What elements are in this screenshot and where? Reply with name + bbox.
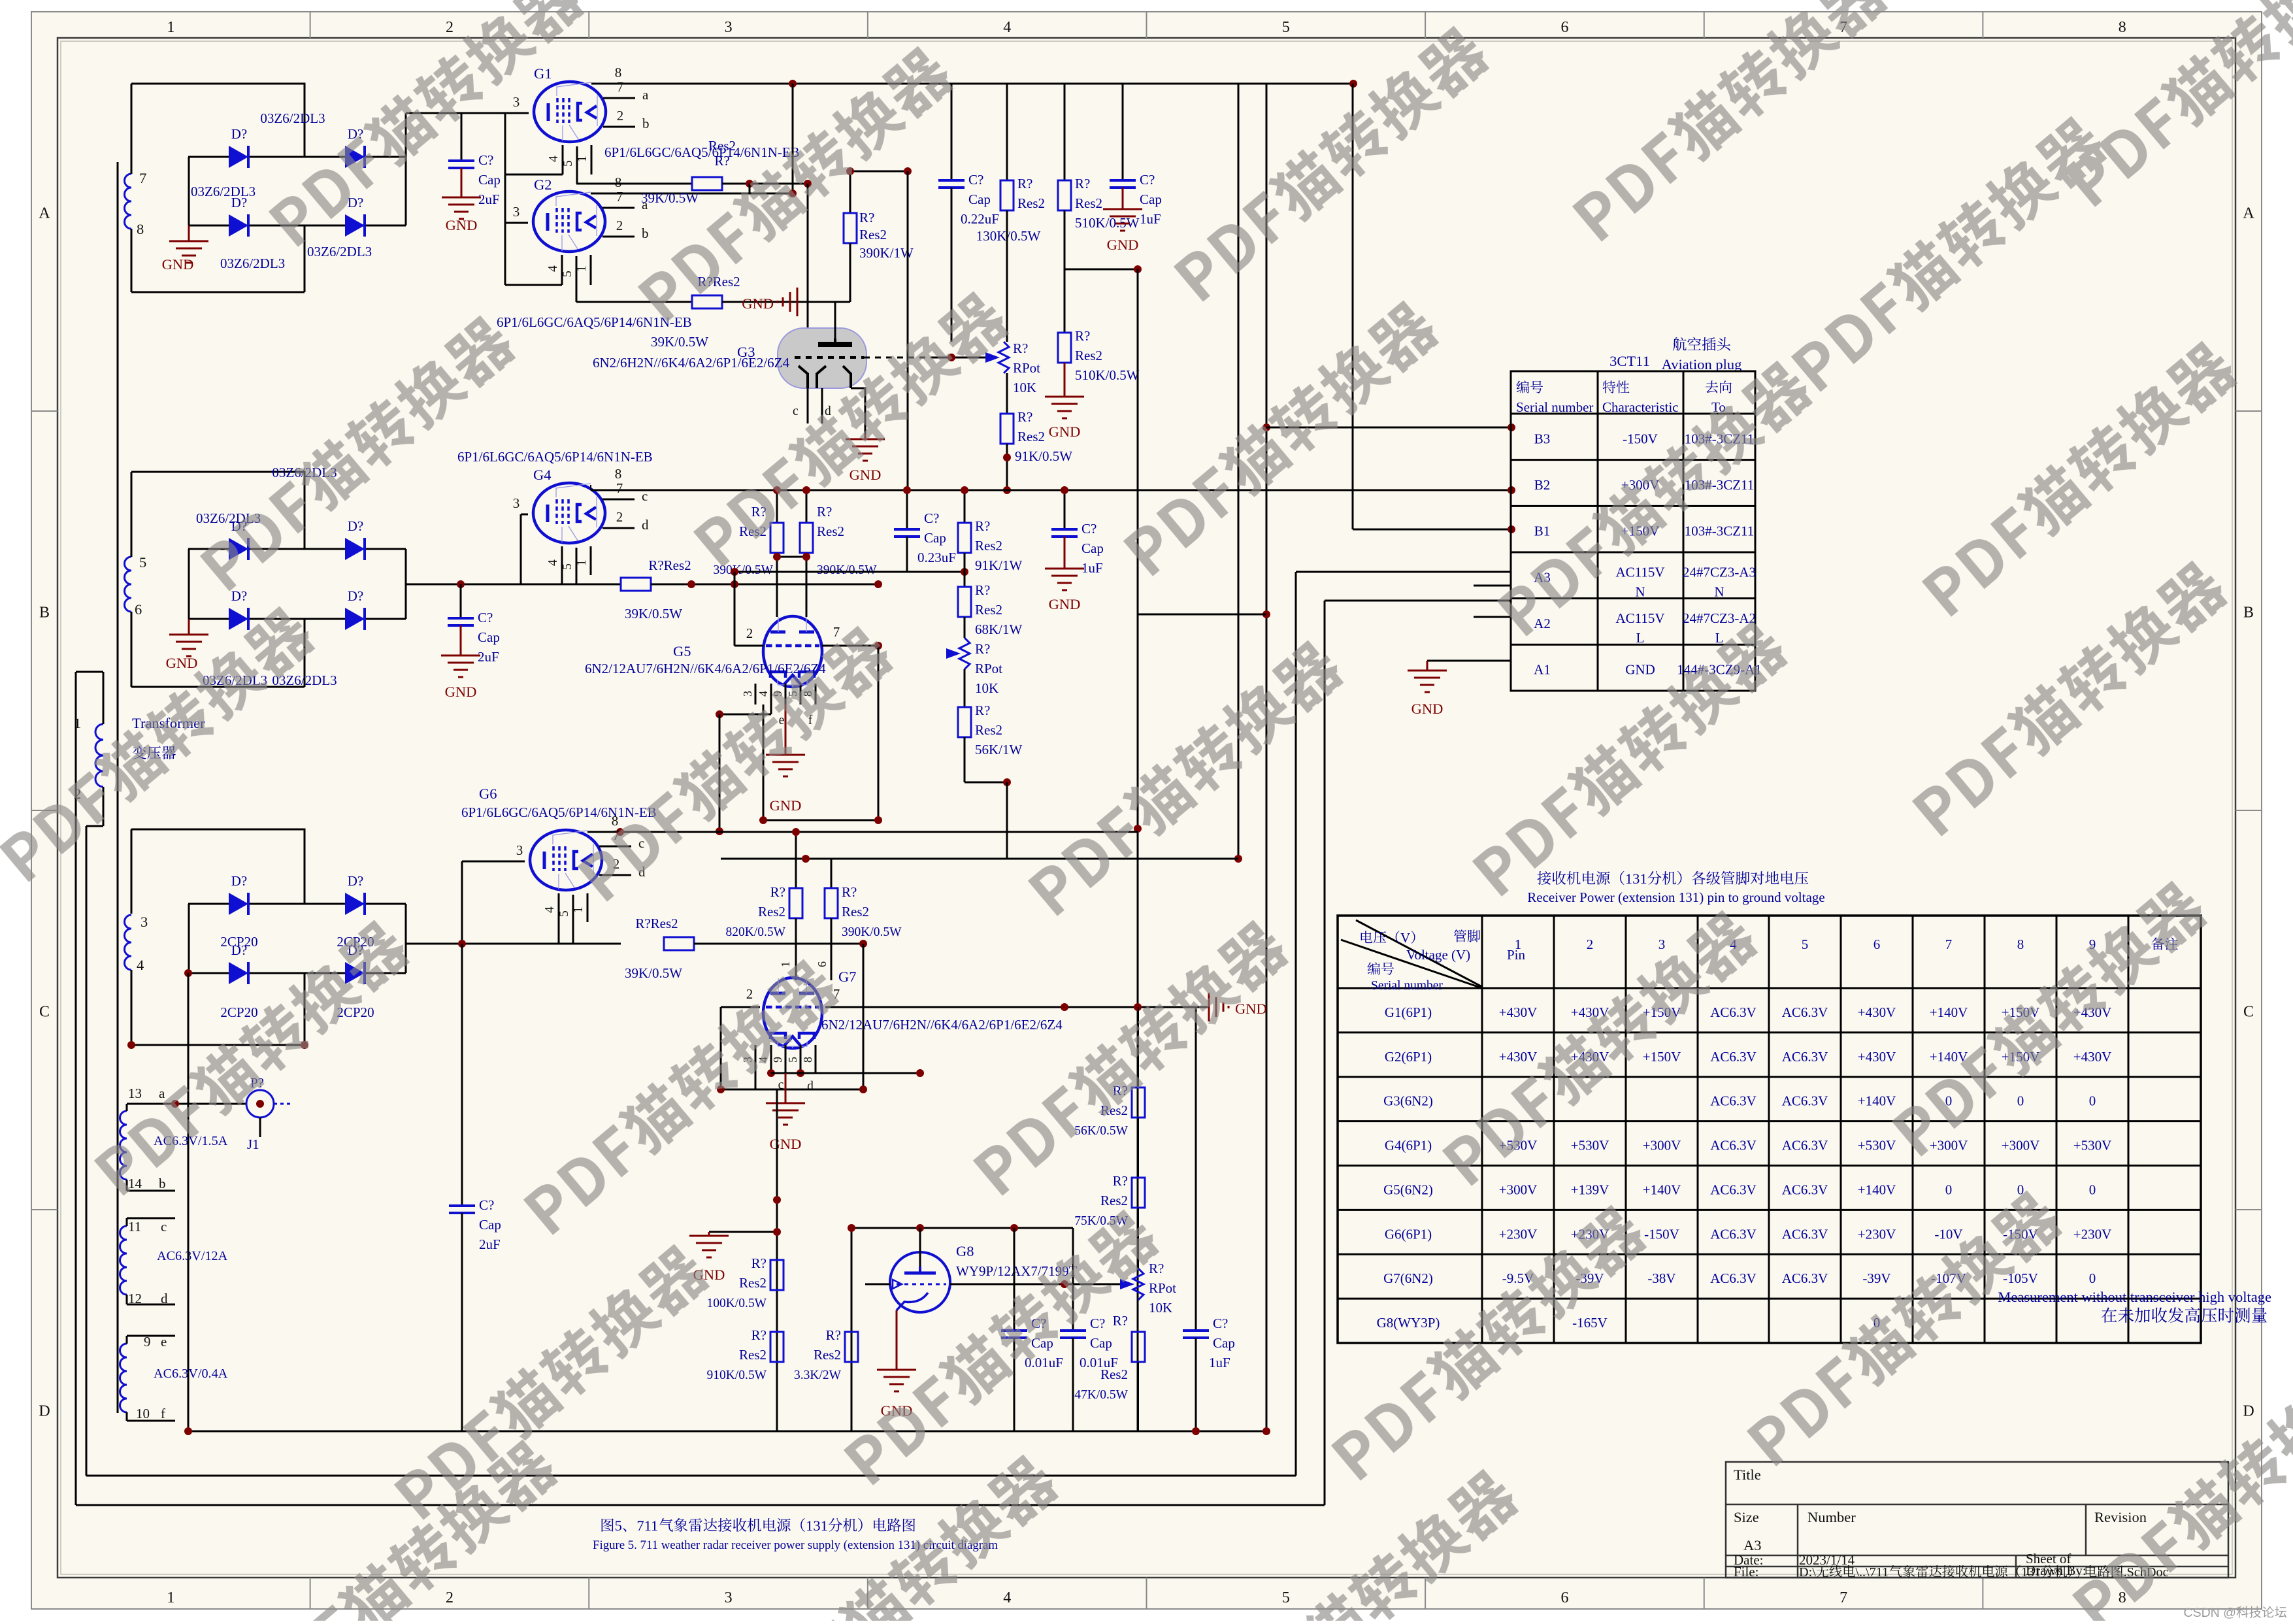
svg-text:8: 8	[612, 813, 619, 829]
junction B3 corner	[1262, 423, 1270, 431]
svg-text:+300V: +300V	[1499, 1182, 1538, 1197]
svg-text:Res2: Res2	[1017, 195, 1045, 211]
svg-text:Cap: Cap	[968, 191, 991, 207]
transformer heater winding 13-14	[120, 1111, 127, 1180]
svg-text:1: 1	[167, 1589, 174, 1606]
junction x1938 y940	[1262, 610, 1270, 618]
wire bridge3 left rail down to bottom bus	[188, 973, 190, 1431]
capacitor C? Cap 0.23uF	[906, 490, 908, 529]
wire G5 inner loop	[763, 704, 765, 820]
wire y940	[1138, 614, 1266, 616]
junction table B3	[1508, 423, 1515, 431]
svg-text:2: 2	[617, 108, 624, 124]
potentiometer R? RPot 10K (bottom)	[1120, 1279, 1134, 1289]
svg-text:47K/0.5W: 47K/0.5W	[1074, 1388, 1128, 1402]
svg-text:G6: G6	[479, 786, 497, 802]
junction y1879 x1552	[1010, 1224, 1018, 1232]
svg-text:AC6.3V: AC6.3V	[1782, 1138, 1828, 1153]
resistor R? Res2 100K/0.5W	[770, 1260, 784, 1290]
G4 pin 2 stub	[602, 527, 635, 529]
svg-text:4: 4	[757, 691, 770, 697]
svg-text:G1(6P1): G1(6P1)	[1385, 1004, 1432, 1020]
svg-text:G4: G4	[533, 467, 552, 483]
resistor R? Res2 390K/0.5W (G5 right)	[806, 490, 808, 523]
svg-text:+530V: +530V	[1571, 1138, 1609, 1153]
svg-text:B: B	[2243, 605, 2254, 621]
voltage table header text	[1361, 931, 1373, 943]
svg-text:1uF: 1uF	[1209, 1355, 1230, 1370]
wire G7 pin3 loop	[720, 1007, 722, 1089]
svg-text:R?: R?	[826, 1327, 841, 1343]
svg-text:-38V: -38V	[1647, 1270, 1675, 1286]
G2 pin 2 stub	[602, 236, 635, 238]
junction y1879 x1303	[848, 1224, 855, 1232]
vacuum tube G4 (6P1)	[533, 483, 605, 543]
junction 0.23uF top	[903, 486, 911, 494]
svg-text:5: 5	[615, 1517, 622, 1534]
G6 pin 7 stub	[599, 846, 631, 848]
ground GND (aviation A1)	[1427, 661, 1428, 671]
junction V1741 H4	[1134, 825, 1142, 833]
vertical wire H1 to R130K	[1006, 84, 1008, 180]
transformer secondary winding 7-8	[125, 174, 132, 229]
svg-text:+140V: +140V	[1858, 1093, 1896, 1109]
svg-text:14: 14	[128, 1176, 142, 1191]
vertical wire G7 heater down	[776, 1089, 778, 1431]
svg-text:6P1/6L6GC/6AQ5/6P14/6N1N-EB: 6P1/6L6GC/6AQ5/6P14/6N1N-EB	[457, 449, 653, 465]
svg-text:Voltage (V): Voltage (V)	[1406, 947, 1470, 963]
svg-text:CSDN @: CSDN @	[2184, 1606, 2236, 1620]
capacitor C? Cap 0.01uF (second)	[1072, 1228, 1074, 1331]
vertical wire 1541 to H5	[1006, 782, 1008, 859]
G2 pins 4 5 1 legs	[561, 255, 563, 285]
svg-text:Drawn By:: Drawn By:	[2026, 1563, 2087, 1578]
svg-text:5: 5	[139, 554, 146, 571]
transformer heater winding 9-10	[120, 1344, 127, 1412]
svg-text:G5: G5	[673, 643, 691, 659]
junction G8 right x1629	[1061, 1280, 1068, 1288]
svg-text:GND: GND	[1235, 1001, 1267, 1017]
svg-text:Cap: Cap	[1090, 1335, 1112, 1351]
wire winding-11 c stub	[126, 1218, 128, 1226]
potentiometer R? RPot 10K (G1 stage)	[985, 352, 1000, 363]
svg-text:7: 7	[616, 189, 623, 205]
junction y1879 x1408	[916, 1224, 924, 1232]
junction 91K/1W top	[961, 486, 968, 494]
svg-text:R?: R?	[817, 504, 832, 520]
svg-text:5: 5	[561, 563, 574, 570]
bridge 3 left rail join wire	[188, 904, 190, 973]
svg-text:C?: C?	[1140, 172, 1155, 188]
svg-text:Res2: Res2	[859, 227, 887, 242]
svg-text:D?: D?	[348, 195, 364, 210]
svg-text:AC6.3V: AC6.3V	[1782, 1049, 1828, 1065]
junction y875 right	[961, 568, 968, 576]
transformer heater winding 11-12	[120, 1226, 127, 1295]
svg-text:N: N	[1635, 584, 1645, 599]
svg-text:-10V: -10V	[1934, 1226, 1962, 1242]
capacitor C? Cap 1uF (bottom)	[1195, 1007, 1197, 1331]
svg-text:8: 8	[615, 174, 622, 190]
svg-text:39K/0.5W: 39K/0.5W	[625, 965, 682, 981]
svg-text:+430V: +430V	[1499, 1004, 1538, 1020]
resistor R? Res2 3.3K/2W	[845, 1332, 858, 1362]
svg-text:A: A	[2243, 205, 2254, 222]
junction G4 row x1344	[874, 580, 882, 588]
G5 cathode GND	[785, 704, 787, 755]
junction G1 row x1236	[804, 180, 812, 188]
svg-text:+140V: +140V	[1930, 1049, 1968, 1065]
svg-text:GND: GND	[446, 217, 478, 233]
svg-text:R?: R?	[1075, 176, 1090, 191]
svg-text:-39V: -39V	[1862, 1270, 1890, 1286]
vertical wire 3.3K chain	[851, 1228, 853, 1431]
svg-text:0: 0	[2089, 1093, 2096, 1109]
svg-text:+140V: +140V	[1858, 1182, 1896, 1197]
svg-text:C?: C?	[478, 610, 493, 625]
svg-text:GND: GND	[166, 655, 198, 671]
svg-text:G8: G8	[956, 1243, 974, 1259]
junction loop left	[717, 1085, 725, 1093]
transformer secondary winding 3-4	[125, 915, 132, 970]
bridge 1 output join wire	[405, 113, 407, 157]
vacuum tube G7 (6N2)	[763, 978, 822, 1048]
svg-text:Res2: Res2	[975, 722, 1002, 738]
svg-text:910K/0.5W: 910K/0.5W	[706, 1368, 767, 1382]
zone column ticks and numbers	[310, 12, 311, 38]
svg-text:130K/0.5W: 130K/0.5W	[976, 228, 1041, 244]
G1 pins 4 5 1 legs	[562, 145, 564, 174]
vertical wire V1741	[1137, 269, 1139, 1431]
svg-text:R?: R?	[1149, 1261, 1164, 1276]
junction H4 x949	[616, 828, 624, 836]
wire 1124 down to G5 pin2	[734, 572, 736, 646]
G5 pin 2 wire	[734, 645, 763, 647]
svg-text:8: 8	[2017, 936, 2024, 952]
wire G2 cathode row with resistor	[576, 301, 692, 303]
svg-text:Cap: Cap	[478, 172, 501, 188]
G7 pins 3 4 9 5 8 legs	[755, 1045, 757, 1073]
svg-text:+139V: +139V	[1571, 1182, 1609, 1197]
svg-text:2: 2	[746, 625, 753, 641]
svg-text:1: 1	[779, 961, 792, 967]
junction inner loop left	[759, 816, 767, 824]
svg-text:L: L	[1715, 630, 1724, 646]
bottom bus 3 (AC115V N)	[76, 1504, 1325, 1506]
svg-text:+300V: +300V	[2002, 1138, 2040, 1153]
resistor R? Res2 47K/0.5W	[1132, 1332, 1145, 1362]
svg-text:3CT11: 3CT11	[1609, 353, 1650, 369]
junction 820K top	[792, 828, 800, 836]
resistor R? Res2 910K/0.5W	[770, 1332, 784, 1362]
svg-text:0.23uF: 0.23uF	[917, 550, 956, 565]
svg-text:G2(6P1): G2(6P1)	[1385, 1049, 1432, 1065]
diode D? (03Z6/2DL3) bridge 2 top row 1	[229, 538, 248, 560]
svg-text:+150V: +150V	[1643, 1049, 1681, 1065]
svg-text:4: 4	[546, 265, 560, 272]
svg-text:24#7CZ3-A3: 24#7CZ3-A3	[1683, 564, 1756, 580]
vacuum tube G1 (6P1)	[534, 82, 606, 142]
voltage table header diagonals	[1356, 920, 1482, 987]
svg-text:R?: R?	[751, 1327, 767, 1343]
wire G1 cathode row with resistor	[576, 183, 692, 185]
svg-text:J1: J1	[247, 1136, 259, 1152]
svg-text:Res2: Res2	[975, 602, 1002, 618]
svg-text:R?: R?	[1113, 1173, 1128, 1189]
G7 cathode GND	[785, 1073, 787, 1103]
svg-text:AC6.3V: AC6.3V	[1782, 1182, 1828, 1197]
svg-text:7: 7	[617, 79, 624, 95]
wire winding-12 d stub	[126, 1295, 128, 1304]
svg-text:7: 7	[1945, 936, 1953, 952]
svg-text:2uF: 2uF	[479, 1236, 501, 1252]
svg-text:d: d	[807, 1080, 814, 1093]
resistor R? Res2 91K/0.5W	[1000, 414, 1014, 444]
potentiometer R? RPot 10K (G3 bias)	[1006, 373, 1008, 414]
svg-text:Receiver Power (extension 131): Receiver Power (extension 131) pin to gr…	[1527, 889, 1824, 905]
wire winding-9 e stub	[126, 1336, 128, 1344]
svg-text:11: 11	[128, 1219, 141, 1235]
svg-text:4: 4	[137, 957, 144, 973]
svg-text:2uF: 2uF	[478, 649, 499, 665]
resistor R? Res2 56K/0.5W (right)	[1138, 1007, 1139, 1087]
bottom bus 2 (AC115V L)	[86, 1475, 1296, 1477]
svg-text:10K: 10K	[1149, 1300, 1172, 1316]
G6 pins 4 5 1 legs	[558, 893, 560, 944]
junction G4 row x1058	[687, 580, 695, 588]
svg-text:GND: GND	[1049, 596, 1081, 612]
aviation plug table grid	[1511, 371, 1755, 691]
svg-text:+430V: +430V	[2073, 1049, 2112, 1065]
svg-text:+230V: +230V	[1858, 1226, 1896, 1242]
junction heater x1408	[916, 1069, 924, 1077]
svg-text:3: 3	[513, 94, 520, 110]
junction 390Ka top	[773, 486, 781, 494]
svg-text:+230V: +230V	[1499, 1226, 1538, 1242]
voltage table title chinese	[1537, 871, 1551, 885]
wire 510K chain to V1741 y412	[1064, 269, 1138, 271]
svg-text:56K/0.5W: 56K/0.5W	[1074, 1124, 1128, 1138]
G5 pins 3 4 9 5 8 legs	[755, 684, 757, 704]
svg-text:A: A	[39, 205, 50, 222]
svg-text:1: 1	[167, 19, 174, 36]
junction bridge2 cap tap	[457, 580, 465, 588]
svg-text:03Z6/2DL3: 03Z6/2DL3	[220, 256, 285, 271]
svg-text:GND: GND	[742, 295, 774, 312]
svg-text:3.3K/2W: 3.3K/2W	[794, 1368, 842, 1382]
G8 right wire to RPot	[950, 1284, 1123, 1285]
svg-text:R?: R?	[1075, 328, 1090, 344]
svg-text:AC6.3V: AC6.3V	[1710, 1138, 1757, 1153]
svg-text:C?: C?	[924, 510, 939, 526]
wire 390K left to G5 plate	[776, 557, 778, 617]
svg-text:2: 2	[446, 19, 454, 36]
junction bridge3 bottom rail left	[184, 969, 192, 977]
wire aviation A3 feeder	[1296, 571, 1511, 573]
diode D? (03Z6/2DL3) bridge 1 bottom row 2	[345, 214, 365, 237]
svg-text:+300V: +300V	[1643, 1138, 1681, 1153]
G4 pin 7 stub	[602, 499, 635, 501]
svg-text:R?: R?	[714, 153, 729, 169]
ground GND bridge 1	[188, 225, 190, 241]
diode D? (2CP20) bridge 3 top row 1	[229, 893, 248, 915]
capacitor C? Cap 1uF (G5 area)	[1064, 490, 1066, 529]
svg-text:39K/0.5W: 39K/0.5W	[651, 334, 708, 350]
svg-text:4: 4	[1003, 1589, 1011, 1606]
transformer primary winding 1-2	[95, 724, 103, 787]
capacitor C? Cap 1uF (top)	[1110, 179, 1136, 182]
svg-text:5: 5	[557, 910, 571, 917]
svg-text:1: 1	[575, 265, 589, 272]
svg-text:C: C	[2243, 1004, 2254, 1021]
junction loop right	[859, 1085, 867, 1093]
G2 pin 3 wire	[505, 222, 528, 224]
junction G1 row x1147	[746, 180, 753, 188]
svg-text:Cap: Cap	[478, 629, 500, 645]
svg-text:7: 7	[833, 624, 840, 640]
junction x1189 y1885	[773, 1228, 781, 1236]
svg-text:7: 7	[616, 480, 623, 496]
svg-text:G3(6N2): G3(6N2)	[1383, 1093, 1433, 1109]
svg-text:Serial number: Serial number	[1516, 399, 1593, 415]
svg-text:131: 131	[1625, 870, 1647, 887]
svg-text:+300V: +300V	[1930, 1138, 1968, 1153]
svg-text:8: 8	[2119, 1589, 2126, 1606]
svg-text:2CP20: 2CP20	[220, 1004, 257, 1020]
G4 pin3 vertical to output	[520, 514, 522, 584]
svg-text:3: 3	[741, 691, 754, 697]
svg-text:D: D	[2243, 1403, 2254, 1420]
svg-text:AC6.3V: AC6.3V	[1710, 1182, 1757, 1197]
vacuum tube G6 (6P1)	[530, 830, 602, 890]
svg-text:R?Res2: R?Res2	[635, 916, 678, 931]
aviation plug table header text	[1517, 380, 1529, 393]
svg-text:+140V: +140V	[1930, 1004, 1968, 1020]
rectifier bridge 3 loop wire	[131, 829, 305, 904]
G2 pin 7 stub	[602, 207, 635, 209]
svg-text:GND: GND	[1049, 423, 1081, 440]
svg-text:G6(6P1): G6(6P1)	[1385, 1226, 1432, 1242]
svg-text:B1: B1	[1534, 523, 1551, 539]
svg-text:R?: R?	[770, 884, 785, 900]
junction H1 right end	[1349, 80, 1357, 88]
svg-text:6: 6	[1560, 19, 1568, 36]
svg-text:C?: C?	[968, 172, 983, 188]
vacuum tube G3 (6N2) highlighted	[778, 328, 866, 388]
svg-text:0.22uF: 0.22uF	[961, 211, 999, 227]
svg-text:B3: B3	[1534, 431, 1551, 446]
G3 pins c d legs	[807, 388, 809, 423]
wire to aviation plug B3	[1266, 427, 1511, 429]
svg-text:+230V: +230V	[2073, 1226, 2112, 1242]
svg-text:2: 2	[616, 509, 623, 525]
svg-text:AC115V: AC115V	[1615, 564, 1664, 580]
vertical wire H1 to G2 pin8 bus	[792, 84, 794, 193]
svg-text:GND: GND	[162, 256, 194, 273]
G5 pin 7 wire	[822, 645, 878, 647]
svg-text:R?Res2: R?Res2	[648, 557, 691, 573]
transformer T1 core line	[117, 162, 119, 1413]
svg-text:Cap: Cap	[924, 530, 946, 546]
G6 pin 8 wire H4 bus	[587, 831, 1138, 833]
svg-text:A1: A1	[1534, 662, 1551, 678]
svg-text:C?: C?	[478, 152, 493, 168]
diode D? (2CP20) bridge 3 bottom row 2	[345, 962, 365, 984]
resistor R? Res2 39K/0.5W (G1)	[692, 177, 722, 190]
G2 pin 8 wire	[591, 193, 793, 195]
voltage table grid	[1338, 916, 2201, 1343]
svg-text:AC6.3V: AC6.3V	[1782, 1270, 1828, 1286]
junction cap1uF top	[1061, 486, 1068, 494]
G4 pin 8 wire H3 bus	[590, 485, 591, 490]
wire stub 1147 to G2 bus	[749, 184, 751, 193]
wire G8 plate row y1879	[851, 1227, 1073, 1229]
wire G2 pin4 to left vertical	[505, 284, 562, 286]
G1 pin 8 wire (to top bus)	[591, 83, 793, 85]
G6 pin 2 stub	[599, 874, 631, 876]
wire 390K right to G5 plate	[806, 557, 808, 617]
capacitor C? Cap 0.01uF (first)	[1014, 1228, 1015, 1331]
potentiometer R? RPot 10K (G4 stage)	[946, 648, 961, 659]
svg-text:Res2: Res2	[814, 1347, 841, 1363]
svg-text:d: d	[642, 517, 649, 533]
svg-text:1: 1	[1515, 936, 1522, 952]
junction pin7 x1741	[1134, 1003, 1142, 1011]
G4 pins 4 5 1 legs	[561, 546, 563, 584]
capacitor C? Cap 2uF (bridge 1 filter)	[461, 113, 463, 161]
junction table B2	[1508, 486, 1515, 494]
svg-text:GND: GND	[770, 797, 802, 814]
svg-text:3: 3	[516, 842, 523, 858]
svg-text:Res2: Res2	[739, 1275, 767, 1291]
wire to aviation plug B1	[1353, 529, 1511, 531]
svg-text:68K/1W: 68K/1W	[975, 621, 1023, 637]
svg-text:D?: D?	[231, 588, 248, 604]
svg-text:8: 8	[615, 65, 622, 80]
svg-text:6: 6	[816, 961, 829, 967]
voltage table note chinese	[2102, 1308, 2117, 1323]
svg-text:510K/0.5W: 510K/0.5W	[1075, 367, 1140, 383]
svg-text:1: 1	[572, 906, 586, 913]
svg-text:8: 8	[2119, 19, 2126, 36]
svg-text:+430V: +430V	[1858, 1049, 1896, 1065]
svg-text:Res2: Res2	[1075, 348, 1102, 363]
resistor R? Res2 390K/1W	[850, 171, 851, 213]
svg-text:Aviation plug: Aviation plug	[1662, 356, 1742, 373]
junction G3 grid x1456	[948, 354, 955, 361]
diode D? (2CP20) bridge 3 bottom row 1	[229, 962, 248, 984]
svg-text:Res2: Res2	[1075, 195, 1102, 211]
svg-text:03Z6/2DL3: 03Z6/2DL3	[307, 244, 372, 259]
capacitor C? Cap 2uF (bridge 3 filter)	[461, 944, 463, 1206]
svg-text:2uF: 2uF	[478, 191, 500, 207]
svg-text:Res2: Res2	[739, 1347, 767, 1363]
wire bridge3 output row	[406, 943, 621, 945]
junction V6 bottom	[1234, 855, 1242, 863]
svg-text:G8(WY3P): G8(WY3P)	[1377, 1315, 1440, 1331]
diode D? (03Z6/2DL3) bridge 1 top row 1	[229, 146, 248, 168]
resistor R? Res2 39K/0.5W (G2)	[692, 295, 722, 308]
svg-text:Cap: Cap	[479, 1217, 501, 1233]
svg-text:G7: G7	[838, 969, 857, 985]
svg-text:2CP20: 2CP20	[220, 934, 257, 950]
junction a-wire	[171, 1100, 179, 1108]
G1 pin 3 wire	[505, 112, 529, 114]
svg-text:RPot: RPot	[975, 661, 1002, 676]
junction inner loop right	[874, 816, 882, 824]
svg-text:AC6.3V: AC6.3V	[1710, 1270, 1757, 1286]
wire top bracket 1301-1389	[850, 171, 908, 173]
